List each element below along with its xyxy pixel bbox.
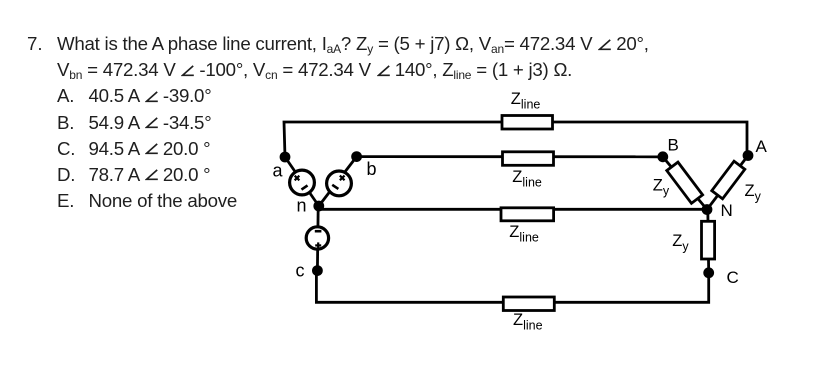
source Vbn [327,171,352,196]
svg-text:n: n [297,196,307,216]
node N [702,204,713,215]
svg-text:Zline: Zline [511,90,541,112]
svg-text:A: A [756,137,768,156]
source Van [290,170,315,195]
wire: bottom loop c to C [316,271,708,303]
source Vcn [306,227,328,249]
resistor Zy (B-N) [667,162,703,203]
question number [27,31,43,57]
node n [313,201,324,212]
wire: source branch a-n [285,157,319,206]
svg-text:Zy: Zy [745,182,762,204]
wire: source branch n-c [316,206,320,271]
svg-text:Zy: Zy [672,232,689,254]
wire: top loop a to A [284,122,747,157]
resistor Zline 2 (phase b) [503,152,554,166]
svg-text:Zline: Zline [509,223,539,245]
node a [280,152,291,163]
svg-text:b: b [367,159,377,179]
resistor Zy (A-N) [712,161,745,199]
node C [703,267,714,278]
svg-text:Zy: Zy [653,177,670,199]
svg-text:Zline: Zline [512,168,542,190]
node B [657,151,668,162]
resistor Zy (N-C) [702,221,715,259]
node c [312,265,323,276]
svg-text:a: a [273,161,284,181]
resistor Zline 4 (bottom) [503,297,554,311]
question text [57,31,649,214]
wire: source branch b-n [319,157,357,206]
wire: b to B [357,155,663,158]
svg-text:N: N [721,201,733,220]
node b [351,151,362,162]
wire: B to N through load [663,157,707,210]
svg-text:B: B [668,135,679,154]
resistor Zline 1 (top) [502,116,553,130]
wire: n to N [319,208,707,211]
svg-text:Zline: Zline [513,311,543,333]
resistor Zline 3 (neutral) [501,208,554,221]
wire: N to C through load [706,210,710,273]
svg-text:C: C [727,268,739,287]
svg-text:c: c [296,261,305,281]
node A [743,150,754,161]
wire: A to N through load [707,156,748,210]
